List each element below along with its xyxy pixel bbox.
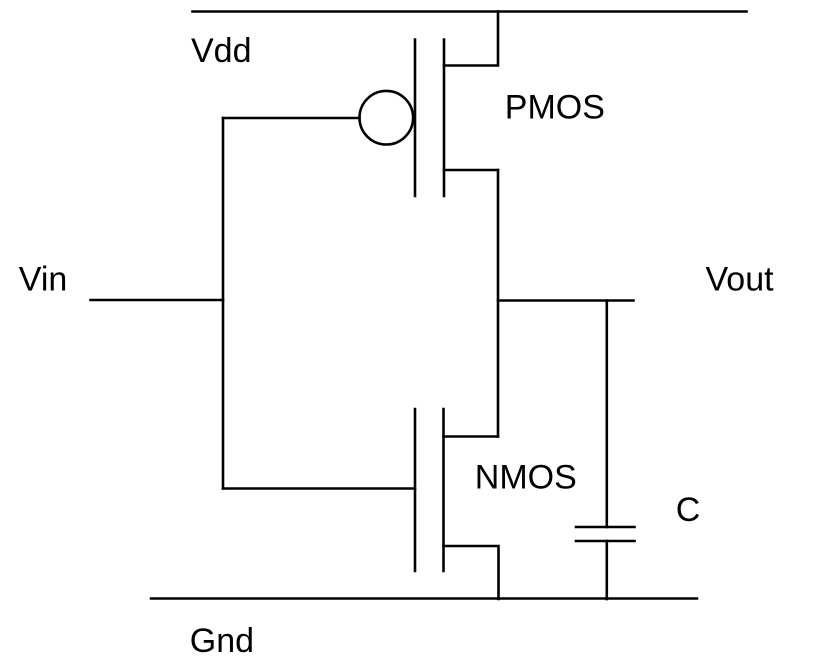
wire gate node vertical	[222, 118, 225, 489]
wire Vdd rail to PMOS source	[444, 12, 498, 66]
svg-text:NMOS: NMOS	[475, 459, 577, 497]
wire PMOS drain stub	[444, 169, 498, 172]
transistor PMOS channel bar	[443, 40, 446, 197]
svg-text:Gnd: Gnd	[190, 622, 254, 660]
transistor NMOS channel bar	[442, 409, 445, 571]
wire NMOS source to Gnd	[444, 546, 499, 599]
svg-text:Vin: Vin	[19, 261, 68, 299]
Gnd rail	[151, 597, 697, 600]
svg-text:Vdd: Vdd	[191, 32, 252, 70]
wire output node to capacitor	[605, 301, 608, 528]
transistor PMOS gate bar	[414, 40, 417, 197]
wire drain junction vertical	[497, 170, 500, 437]
svg-text:Vout: Vout	[706, 261, 775, 299]
wire output node to Vout	[498, 299, 634, 302]
wire Vin lead	[91, 299, 224, 302]
wire gate node to PMOS bubble	[223, 117, 360, 120]
wire gate node to NMOS gate	[223, 487, 415, 490]
transistor NMOS gate bar	[414, 409, 417, 571]
capacitor C bottom plate	[576, 540, 635, 543]
transistor PMOS gate bubble	[360, 91, 414, 145]
wire NMOS drain stub	[444, 435, 499, 438]
Vdd rail	[193, 10, 747, 13]
svg-text:PMOS: PMOS	[505, 89, 605, 127]
wire capacitor to Gnd	[605, 541, 608, 599]
capacitor C top plate	[576, 526, 635, 529]
svg-text:C: C	[676, 491, 701, 529]
